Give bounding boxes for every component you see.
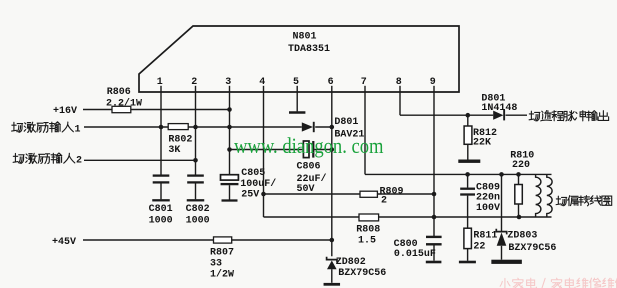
svg-text:+45V: +45V	[52, 237, 76, 248]
svg-text:1: 1	[75, 124, 81, 135]
junction pin2 input1	[193, 125, 198, 130]
ground bar ZD803 thick	[491, 260, 521, 264]
resistor R802	[168, 124, 188, 130]
svg-text:1N4148: 1N4148	[481, 103, 517, 114]
wire input-2 row	[84, 159, 196, 161]
svg-text:1: 1	[157, 77, 163, 88]
pin7 column wire to deflection rail	[364, 92, 366, 174]
svg-text:3K: 3K	[168, 145, 180, 156]
wire input-1 row (pin1/pin2/pin3 to diode)	[84, 126, 302, 128]
svg-text:BZX79C56: BZX79C56	[338, 268, 386, 279]
junction R812 tap	[466, 113, 471, 118]
ground bar ZD802	[324, 283, 341, 286]
resistor R810 220	[518, 174, 520, 184]
ground bar C800	[426, 261, 442, 264]
label field drive input 2	[13, 153, 24, 163]
footer pink watermark	[500, 278, 510, 288]
junction pin6 C806-row	[330, 147, 335, 152]
IC N801 TDA8351 body	[139, 26, 459, 92]
capacitor C809 220n/100V	[467, 174, 469, 187]
svg-text:4: 4	[259, 77, 265, 88]
svg-text:www. diangon. com: www. diangon. com	[234, 133, 384, 158]
junction diode to pin6	[330, 125, 335, 130]
svg-text:N801: N801	[293, 31, 317, 42]
svg-text:C805: C805	[241, 168, 265, 179]
svg-text:100uF/: 100uF/	[240, 178, 276, 190]
svg-text:22: 22	[473, 241, 485, 252]
ground bar C802	[187, 199, 205, 201]
label field deflection coil	[556, 196, 567, 206]
svg-text:0.015uF: 0.015uF	[394, 249, 436, 260]
svg-text:1.5: 1.5	[358, 235, 376, 246]
pin2 column wire	[195, 92, 197, 175]
svg-text:25V: 25V	[241, 190, 259, 201]
wire +16V rail	[83, 109, 230, 111]
ground bar R812	[458, 160, 480, 163]
resistor R811 22	[464, 228, 472, 248]
svg-text:+16V: +16V	[53, 106, 77, 117]
junction ZD803 top	[499, 172, 504, 177]
node junction +16V to pin3	[227, 107, 232, 112]
svg-text:1/2W: 1/2W	[210, 268, 234, 280]
wire R809 row pin4 to pin9	[264, 193, 435, 195]
wire flyback pulse row	[400, 114, 493, 116]
pin4 column wire	[263, 92, 265, 217]
svg-text:9: 9	[430, 77, 436, 88]
junction pin9 R808 row	[432, 215, 437, 220]
capacitor C805 100uF/25V electrolytic	[221, 175, 239, 180]
junction pin2 input2	[193, 158, 198, 163]
svg-text:1000: 1000	[186, 215, 210, 226]
pin6 column wire	[331, 92, 333, 256]
inductor field deflection coil	[536, 174, 541, 217]
wire +45V rail	[83, 239, 332, 241]
label field drive input 1	[12, 122, 23, 132]
svg-text:D801: D801	[334, 117, 358, 128]
resistor R809 2	[360, 191, 377, 197]
junction R810 bottom	[517, 215, 522, 220]
svg-text:2: 2	[76, 156, 82, 167]
resistor R806	[112, 106, 131, 112]
svg-text:ZD803: ZD803	[507, 230, 537, 241]
capacitor C802 1000	[187, 174, 204, 176]
svg-text:2: 2	[191, 77, 197, 88]
capacitor C806 22uF/50V	[303, 141, 309, 158]
resistor R812 22K	[467, 115, 469, 160]
svg-text:C802: C802	[186, 204, 210, 215]
svg-text:220: 220	[512, 160, 530, 171]
pin8 column wire	[399, 92, 401, 115]
diode D801 BAV21	[302, 122, 313, 131]
svg-text:R807: R807	[210, 247, 234, 258]
svg-text:R806: R806	[107, 87, 131, 98]
svg-text:C801: C801	[149, 204, 173, 215]
svg-text:R808: R808	[356, 224, 380, 235]
svg-text:8: 8	[396, 77, 402, 88]
junction pin3 C806-row	[227, 147, 232, 152]
capacitor C801 1000	[153, 174, 170, 176]
wire C806 row pin3 to pin6	[230, 149, 304, 151]
pin1 column wire	[160, 92, 162, 175]
svg-text:TDA8351: TDA8351	[288, 44, 330, 55]
svg-text:33: 33	[210, 259, 222, 270]
resistor R808 1.5	[359, 214, 379, 221]
junction pin3 input1	[227, 125, 232, 130]
svg-text:R811: R811	[473, 230, 497, 241]
pin3 column wire	[229, 92, 231, 175]
svg-text:C806: C806	[297, 161, 321, 172]
svg-text:1000: 1000	[149, 215, 173, 226]
svg-text:50V: 50V	[297, 184, 315, 195]
label field flyback pulse output	[529, 111, 540, 121]
svg-text:7: 7	[361, 77, 367, 88]
zener ZD802 BZX79C56	[327, 257, 337, 263]
wire pin7 output rail	[365, 173, 552, 175]
pin9 column wire	[433, 92, 435, 236]
junction pin1 input1	[159, 125, 164, 130]
capacitor C800 0.015uF	[426, 236, 442, 238]
svg-text:22K: 22K	[473, 137, 491, 148]
svg-text:2.2/1W: 2.2/1W	[106, 98, 142, 110]
ground bar C805	[222, 199, 238, 201]
svg-text:5: 5	[293, 77, 299, 88]
junction C809 top	[465, 172, 470, 177]
svg-text:3: 3	[225, 77, 231, 88]
svg-text:6: 6	[328, 77, 334, 88]
svg-text:ZD802: ZD802	[336, 257, 366, 268]
junction pin4 R809 row	[261, 192, 266, 197]
junction +45V pin6	[330, 238, 335, 243]
junction R810 top	[516, 172, 521, 177]
svg-text:2: 2	[381, 196, 387, 207]
pin5 ground wire	[296, 92, 298, 111]
ground bar pin5	[289, 111, 305, 114]
resistor R807 33 1/2W	[214, 237, 232, 243]
svg-text:BZX79C56: BZX79C56	[508, 243, 556, 254]
svg-text:100V: 100V	[476, 203, 500, 214]
zener ZD803 BZX79C56	[501, 174, 503, 231]
ground bar C801	[152, 199, 170, 201]
diode D801 1N4148	[493, 111, 503, 120]
ground bar R811	[459, 261, 476, 264]
wire R808 row pin4 to coil	[264, 216, 552, 218]
junction pin9 R809 row	[432, 192, 437, 197]
